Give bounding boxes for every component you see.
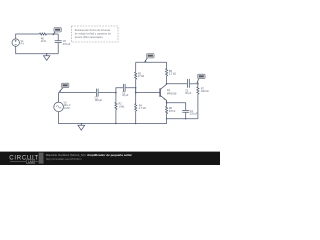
capacitor C5 plates [55, 41, 62, 43]
svg-text:1 MΩ: 1 MΩ [119, 105, 125, 108]
wire V1 top lead [16, 34, 40, 39]
svg-text:Resistencia interna de la fuen: Resistencia interna de la fuente [75, 28, 111, 32]
capacitor C4 bottom stem [185, 112, 187, 119]
transistor Q1 emitter with arrow [160, 96, 166, 103]
wire node A down [115, 93, 117, 103]
wire emitter bypass branch [167, 103, 186, 111]
resistor R7 top lead [197, 84, 199, 87]
svg-text:MPSA18: MPSA18 [167, 92, 177, 95]
wire C3 to output node [190, 83, 198, 85]
component labels [21, 38, 209, 116]
svg-text:9 V: 9 V [21, 43, 25, 46]
svg-text:desvío (filtro pasa bajas): desvío (filtro pasa bajas) [75, 35, 103, 39]
wire R2 to ground rail [115, 110, 117, 124]
footer logo LAB badge [10, 160, 26, 162]
resistor R3 top lead [135, 62, 137, 72]
svg-text:100 kΩ: 100 kΩ [201, 90, 209, 93]
wire R3 to base node to R4 [135, 79, 137, 103]
svg-text:de voltaje (señal) y capacitor: de voltaje (señal) y capacitor de [75, 31, 112, 35]
capacitor C4 plates [182, 110, 189, 112]
resistor R3 [135, 72, 137, 79]
svg-text:470 µF: 470 µF [63, 43, 71, 46]
svg-text:10 Ω: 10 Ω [41, 40, 46, 43]
capacitor C5 top stem [57, 34, 59, 41]
wire R5 to collector [166, 76, 168, 84]
transistor Q1 base bar [159, 88, 161, 96]
wire C1 to node A [99, 92, 116, 94]
annotation dashed box [72, 26, 119, 42]
svg-text:22 µF: 22 µF [185, 92, 192, 95]
svg-text:100 µF: 100 µF [95, 99, 103, 102]
resistor R9 (supply internal resistance) [40, 33, 47, 35]
probe flag 4 (output) [197, 74, 205, 83]
junction dots [46, 53, 199, 124]
wire bottom return [16, 46, 59, 53]
ground (amplifier) [78, 124, 85, 131]
resistor R4 [135, 104, 137, 111]
svg-text:470 Ω: 470 Ω [169, 110, 176, 113]
wire R6 to rails [166, 114, 168, 124]
capacitor C2 plates [123, 84, 125, 92]
wire R4 to ground rail [135, 111, 137, 124]
resistor R5 top lead [166, 62, 168, 68]
svg-text:4.7 kΩ: 4.7 kΩ [139, 107, 146, 110]
footer bar [0, 152, 220, 165]
voltage source V1 [12, 39, 19, 46]
wire emitter down [166, 100, 168, 106]
svg-text:http://circuitlab.com/c5721fm: http://circuitlab.com/c5721fm [46, 157, 82, 161]
svg-text:10 µF: 10 µF [122, 94, 129, 97]
wire ground rail right [167, 118, 198, 120]
capacitor C1 plates [96, 89, 98, 97]
probe flag 1 (supply node) [53, 28, 62, 36]
transistor Q1 collector [160, 84, 166, 90]
wire C2 to base node [126, 88, 136, 93]
wire V2 bottom lead [57, 112, 59, 124]
capacitor C5 bottom stem [57, 43, 59, 54]
wire V2 top lead [57, 93, 59, 103]
probe flag 3 (VCC rail) [145, 54, 154, 63]
wire input jog up [116, 88, 123, 93]
V1 plus minus marks [15, 40, 17, 45]
svg-text:1 kHz: 1 kHz [64, 107, 71, 110]
wire collector to C3 [167, 83, 188, 85]
wire V2 to C1 [58, 92, 96, 94]
ground (circuit 1) [44, 54, 50, 61]
probe flag 2 (input) [59, 83, 69, 92]
resistor R6 [166, 106, 168, 113]
svg-text:220 µF: 220 µF [190, 112, 198, 115]
source V2 sine [54, 102, 64, 112]
wire base [136, 92, 160, 94]
resistor R5 [166, 69, 168, 76]
svg-text:27 kΩ: 27 kΩ [138, 75, 145, 78]
wire R7 to rail [197, 94, 199, 119]
resistor R2 1M [115, 102, 117, 109]
capacitor C3 plates [188, 79, 190, 88]
footer avatar block [39, 153, 44, 164]
wire ground rail left [58, 123, 166, 125]
wire top VCC rail [136, 61, 167, 63]
wire resistor to node [47, 33, 59, 35]
svg-text:2.2 kΩ: 2.2 kΩ [169, 72, 176, 75]
svg-text:LAB: LAB [28, 160, 34, 164]
resistor R7 load [197, 87, 199, 94]
